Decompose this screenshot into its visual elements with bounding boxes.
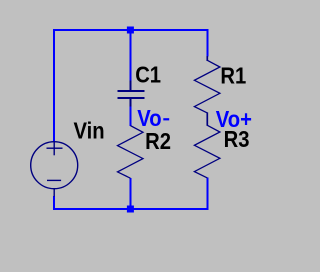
- svg-text:Vo+: Vo+: [216, 106, 252, 133]
- svg-text:R2: R2: [145, 128, 171, 155]
- svg-text:Vo: Vo: [137, 105, 161, 132]
- svg-text:Vin: Vin: [74, 117, 105, 144]
- svg-text:C1: C1: [135, 61, 161, 88]
- svg-text:R1: R1: [220, 62, 246, 89]
